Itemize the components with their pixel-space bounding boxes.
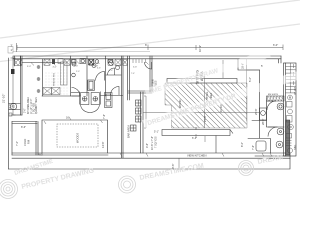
dashed woods rect: [57, 124, 98, 147]
swirl logo left: [0, 180, 18, 199]
bath2 door arc: [96, 72, 105, 81]
kitchen bottom stub: [13, 114, 22, 116]
svg-text:3'-6": 3'-6": [25, 108, 27, 113]
left outer wall: [8, 58, 10, 169]
svg-text:5'-2": 5'-2": [249, 77, 252, 82]
kitchen counter line: [22, 62, 61, 64]
window symbols on top wall: [14, 59, 146, 66]
notch corner lines: [238, 59, 260, 70]
svg-text:3'-6": 3'-6": [74, 66, 78, 68]
watermark diagonal line 2: [0, 24, 300, 62]
small mark below: [9, 113, 12, 116]
wall stub left of vestibule: [71, 92, 80, 94]
cold room top wall (double): [12, 122, 37, 124]
small fixture boxes on wall: [52, 59, 55, 64]
right rooms fixtures: [256, 101, 284, 151]
bath2 shower tray: [88, 80, 95, 91]
corner stub verticals: [15, 56, 21, 66]
svg-text:COLD: COLD: [23, 139, 27, 146]
svg-text:WOOD: WOOD: [178, 100, 182, 108]
svg-text:FRIDGE FRZ: FRIDGE FRZ: [54, 72, 56, 86]
bath block wall 3: [105, 56, 107, 96]
store right wall (double): [150, 56, 152, 92]
svg-text:4'-6": 4'-6": [146, 143, 149, 148]
svg-text:3'-0": 3'-0": [27, 66, 31, 68]
store door arc: [145, 62, 152, 69]
small tick marks scatter: [31, 60, 272, 168]
svg-text:11'-10": 11'-10": [219, 104, 223, 112]
svg-text:WOODS: WOODS: [76, 133, 80, 143]
bottom wall main: [12, 153, 290, 155]
svg-text:5'-6": 5'-6": [133, 67, 137, 69]
svg-text:WD: WD: [39, 153, 43, 157]
right rooms low walls: [248, 121, 290, 157]
svg-text:4'-0": 4'-0": [109, 70, 113, 72]
electrical panel dark square: [11, 69, 15, 74]
svg-text:HALL: HALL: [294, 144, 297, 150]
window w6: [115, 59, 121, 65]
door arc right1: [267, 101, 276, 110]
corner window: [14, 60, 22, 66]
svg-text:EN SUITE: EN SUITE: [268, 94, 279, 96]
svg-text:14'-6": 14'-6": [101, 141, 105, 148]
store bottom wall (double): [128, 91, 152, 93]
wc room fixtures: [108, 60, 113, 63]
watermark bottom band: [0, 161, 254, 199]
cold room right wall (double): [36, 122, 38, 156]
bathroom 2 fixtures: [89, 59, 94, 65]
bathroom 1 fixtures: [72, 59, 152, 97]
bar wall (double): [141, 92, 144, 153]
swirl logo right: [239, 161, 254, 176]
svg-text:8'-6": 8'-6": [21, 126, 26, 129]
svg-text:BAR AREA: BAR AREA: [127, 125, 131, 138]
svg-text:KITCHEN AREA: KITCHEN AREA: [27, 97, 30, 114]
svg-text:4'-0": 4'-0": [53, 67, 57, 69]
sitting bottom bar: [162, 130, 230, 136]
wc divider wall (full height): [106, 56, 123, 158]
wc right: [277, 128, 284, 135]
kitchen counter appliance boxes: [43, 88, 60, 95]
bath1 door arc: [72, 88, 81, 97]
window w3: [64, 59, 70, 65]
svg-text:2'-0": 2'-0": [76, 71, 80, 73]
svg-text:28'-6": 28'-6": [261, 118, 265, 125]
svg-text:3'-0": 3'-0": [94, 66, 98, 68]
double door vestibule: [71, 92, 112, 113]
top wall main (double): [13, 56, 281, 59]
svg-text:QUARRY TILES: QUARRY TILES: [35, 97, 38, 114]
dimension line top: [11, 43, 284, 115]
shower right: [260, 108, 267, 120]
top light face line: [13, 51, 150, 53]
hatched wood floor area: [165, 83, 247, 128]
wc right low: [276, 141, 283, 148]
kitchen symbols circles: [37, 66, 40, 93]
fixture box right of vestibule: [105, 93, 113, 108]
stair treads: [286, 63, 296, 153]
svg-text:12'-0": 12'-0": [9, 104, 12, 110]
svg-text:6'-0": 6'-0": [273, 43, 278, 47]
svg-text:6'-1": 6'-1": [192, 137, 197, 140]
store left wall (double): [128, 56, 130, 100]
window w2: [44, 59, 50, 65]
window w5: [108, 59, 113, 65]
right hatched wall band: [267, 96, 285, 101]
svg-text:21'-6": 21'-6": [203, 115, 207, 122]
bottom bar tick: [196, 127, 233, 153]
dining room outline: [42, 120, 108, 153]
watermark diagonal line top: [0, 0, 300, 38]
sitting right edge line: [259, 70, 261, 138]
bath block wall 1: [70, 56, 72, 96]
top right corner down: [279, 56, 282, 63]
dim extension line right: [246, 59, 248, 121]
stair annex outline: [284, 63, 297, 156]
svg-text:UP 14 R: UP 14 R: [295, 86, 297, 95]
bath block bottom wall: [42, 95, 123, 98]
bath block wall 2: [86, 56, 88, 96]
svg-text:8'-0": 8'-0": [241, 142, 244, 147]
cold room left edge: [11, 122, 13, 156]
swirl logo mid: [119, 176, 136, 193]
svg-text:RM: RM: [27, 140, 31, 144]
bar counter stools: [131, 100, 142, 131]
wc door arc: [108, 68, 115, 75]
kitchen floor dots: [44, 71, 68, 95]
bottom band line: [12, 157, 290, 159]
svg-text:25'-6": 25'-6": [254, 108, 258, 115]
svg-text:VIEW KITCHEN: VIEW KITCHEN: [187, 154, 206, 158]
small wall stub right rooms: [270, 139, 272, 154]
watermark band middle crossing hatch: [142, 70, 302, 128]
right rooms wall: [267, 101, 285, 127]
watermark band text: [14, 154, 284, 191]
dimension line left: [11, 58, 16, 115]
left circle symbol P2: [9, 103, 21, 109]
basin right: [277, 103, 284, 110]
svg-text:7'-6": 7'-6": [252, 145, 255, 150]
svg-text:P2: P2: [12, 105, 16, 109]
lower wc door arc: [111, 87, 120, 96]
svg-text:5'-1": 5'-1": [154, 131, 159, 134]
dim line vertical through ellipse: [204, 76, 206, 128]
svg-text:21'-10": 21'-10": [2, 94, 6, 103]
sitting top bar: [167, 79, 237, 84]
kitchen right wall: [42, 59, 44, 96]
svg-text:7 SQ YDS: 7 SQ YDS: [155, 136, 158, 148]
kitchen left wall (double): [21, 56, 23, 115]
svg-text:7'-6": 7'-6": [103, 114, 106, 119]
bath tub bottom: [256, 141, 266, 151]
svg-text:6'-6": 6'-6": [97, 68, 101, 70]
top bar tick: [203, 76, 205, 79]
watermark band upper crossing sitting area: [144, 50, 271, 97]
wall tick marks series: [133, 59, 146, 63]
bottom outer line: [9, 153, 291, 169]
svg-text:10'-9": 10'-9": [198, 45, 202, 52]
door arc right2: [268, 127, 278, 137]
top left bracket: [8, 47, 13, 54]
svg-text:5'-6": 5'-6": [116, 66, 120, 68]
window w9: [123, 59, 128, 65]
window w4: [89, 59, 94, 65]
svg-text:7'-6": 7'-6": [131, 73, 135, 75]
right dark pier: [286, 120, 290, 155]
svg-text:7'-0": 7'-0": [16, 141, 19, 146]
kitchen counter vertical hatched: [43, 62, 67, 95]
dim line horizontal through ellipse: [143, 112, 260, 114]
